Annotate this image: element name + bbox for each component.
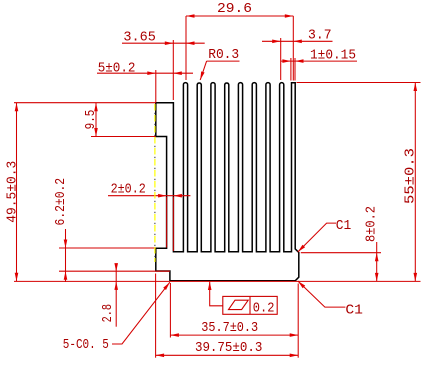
svg-text:35.7±0.3: 35.7±0.3 (201, 320, 258, 336)
svg-text:6.2±0.2: 6.2±0.2 (53, 178, 69, 226)
svg-text:55±0.3: 55±0.3 (403, 148, 419, 204)
svg-text:3.65: 3.65 (123, 30, 155, 46)
svg-text:29.6: 29.6 (217, 1, 252, 17)
svg-text:8±0.2: 8±0.2 (364, 206, 380, 242)
svg-text:5-C0. 5: 5-C0. 5 (63, 337, 109, 353)
svg-text:2.8: 2.8 (100, 304, 116, 322)
svg-text:R0.3: R0.3 (208, 47, 239, 63)
svg-text:C1: C1 (336, 218, 352, 234)
svg-text:9.5: 9.5 (83, 110, 99, 130)
svg-text:3.7: 3.7 (308, 27, 332, 43)
svg-text:39.75±0.3: 39.75±0.3 (195, 340, 263, 356)
svg-text:49.5±0.3: 49.5±0.3 (4, 161, 20, 223)
svg-text:1±0.15: 1±0.15 (310, 48, 356, 64)
svg-text:0.2: 0.2 (253, 300, 275, 316)
svg-text:5±0.2: 5±0.2 (98, 61, 136, 77)
svg-text:2±0.2: 2±0.2 (111, 182, 146, 198)
svg-text:C1: C1 (345, 302, 363, 318)
